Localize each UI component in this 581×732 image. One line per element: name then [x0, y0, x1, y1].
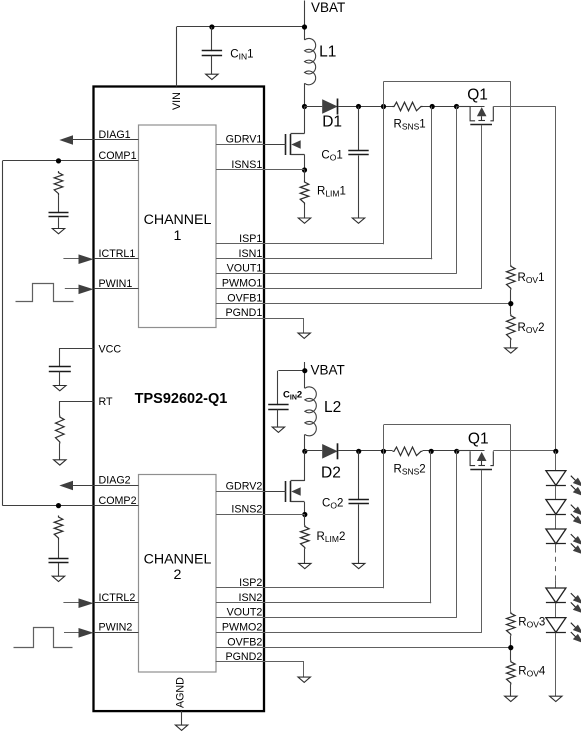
svg-text:GDRV2: GDRV2	[226, 481, 263, 493]
svg-text:1: 1	[174, 228, 182, 244]
svg-text:COMP2: COMP2	[99, 495, 137, 507]
svg-text:VBAT: VBAT	[311, 363, 345, 378]
svg-text:ISNS2: ISNS2	[231, 504, 262, 516]
svg-text:ICTRL2: ICTRL2	[99, 592, 136, 604]
svg-text:PWMO2: PWMO2	[222, 622, 262, 634]
svg-text:PWIN2: PWIN2	[99, 622, 133, 634]
svg-text:L1: L1	[319, 43, 336, 60]
svg-text:OVFB2: OVFB2	[227, 637, 262, 649]
svg-text:VCC: VCC	[99, 344, 122, 356]
svg-text:AGND: AGND	[174, 677, 186, 708]
svg-text:VIN: VIN	[171, 92, 183, 110]
svg-text:L2: L2	[324, 399, 341, 416]
svg-text:RT: RT	[99, 396, 114, 408]
svg-text:COMP1: COMP1	[99, 150, 137, 162]
svg-text:PWIN1: PWIN1	[99, 278, 133, 290]
svg-text:VOUT1: VOUT1	[227, 263, 263, 275]
svg-text:VBAT: VBAT	[311, 0, 345, 15]
svg-text:D2: D2	[321, 465, 341, 482]
svg-text:DIAG2: DIAG2	[99, 475, 131, 487]
svg-text:GDRV1: GDRV1	[226, 134, 263, 146]
svg-text:DIAG1: DIAG1	[99, 129, 131, 141]
svg-text:PWMO1: PWMO1	[222, 278, 262, 290]
svg-text:ISNS1: ISNS1	[231, 159, 262, 171]
svg-text:PGND1: PGND1	[225, 307, 262, 319]
svg-text:CHANNEL: CHANNEL	[144, 212, 212, 228]
svg-text:TPS92602-Q1: TPS92602-Q1	[135, 391, 228, 407]
svg-text:OVFB1: OVFB1	[227, 292, 262, 304]
svg-text:CHANNEL: CHANNEL	[144, 552, 212, 568]
svg-text:ICTRL1: ICTRL1	[99, 248, 136, 260]
svg-text:VOUT2: VOUT2	[227, 607, 263, 619]
svg-text:ISN1: ISN1	[239, 248, 263, 260]
svg-text:Q1: Q1	[467, 87, 488, 104]
svg-text:2: 2	[174, 567, 182, 583]
svg-text:ISP1: ISP1	[239, 233, 262, 245]
svg-text:Q1: Q1	[468, 431, 489, 448]
svg-text:D1: D1	[322, 114, 342, 131]
